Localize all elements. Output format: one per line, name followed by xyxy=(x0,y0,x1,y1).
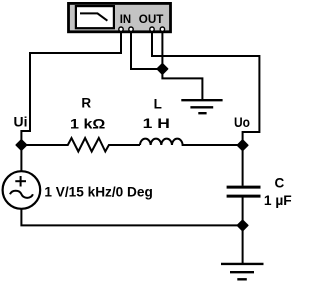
svg-text:R: R xyxy=(81,96,91,111)
capacitor C1 xyxy=(227,187,261,196)
wire IN- to ground junction xyxy=(131,31,159,69)
terminal IN- xyxy=(129,27,133,31)
wire node Uo to capacitor xyxy=(242,145,244,186)
bode plotter U1 body xyxy=(69,3,171,31)
svg-text:C: C xyxy=(275,176,285,191)
wire IN+ to left rail to node Ui xyxy=(21,31,121,141)
wire source to bottom rail xyxy=(21,209,242,226)
resistor R1 xyxy=(21,138,140,152)
svg-text:1 V/15 kHz/0 Deg: 1 V/15 kHz/0 Deg xyxy=(44,185,152,200)
svg-text:Uo: Uo xyxy=(234,115,250,130)
terminal OUT- xyxy=(160,27,164,31)
wire OUT+ to right rail to node Uo xyxy=(152,31,259,141)
junction ground node xyxy=(157,64,168,75)
node bottom xyxy=(237,220,248,231)
svg-text:1 µF: 1 µF xyxy=(264,193,292,208)
svg-text:IN: IN xyxy=(120,12,131,26)
ground (lower) xyxy=(221,264,264,279)
svg-text:L: L xyxy=(154,96,162,111)
node Uo xyxy=(237,140,248,151)
wire capacitor to node bottom xyxy=(242,198,244,226)
ground (upper) xyxy=(181,100,222,113)
svg-text:OUT: OUT xyxy=(139,12,164,26)
source V1 xyxy=(3,171,41,209)
node Ui xyxy=(16,140,27,151)
svg-text:1 kΩ: 1 kΩ xyxy=(70,116,106,131)
terminal IN+ xyxy=(119,27,123,31)
wire OUT- down to junction xyxy=(161,31,163,65)
svg-text:Ui: Ui xyxy=(14,115,28,130)
inductor L1 xyxy=(140,139,243,145)
wire junction to ground xyxy=(162,72,202,100)
wire node Ui to source xyxy=(20,145,22,171)
terminal OUT+ xyxy=(150,27,154,31)
svg-text:1 H: 1 H xyxy=(143,116,170,131)
wire node bottom to ground xyxy=(242,225,244,264)
